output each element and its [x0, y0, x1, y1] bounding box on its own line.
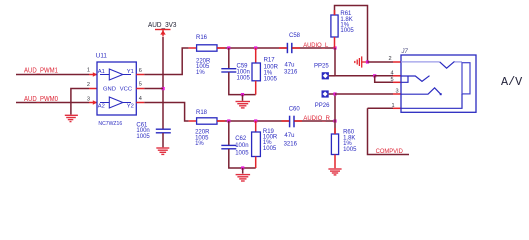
svg-text:47u: 47u: [284, 133, 294, 139]
svg-text:5: 5: [139, 82, 142, 88]
svg-text:NC7WZ16: NC7WZ16: [98, 121, 122, 127]
U11 buffer gate 1: [100, 69, 131, 80]
resistor R18: [197, 118, 217, 124]
svg-text:1%: 1%: [264, 70, 273, 76]
svg-text:1005: 1005: [263, 146, 277, 152]
wire AUD_PWM1 to U11 pin1: [16, 74, 89, 76]
wire ground stem lower: [242, 168, 244, 174]
capacitor C60: [290, 116, 294, 128]
wire PP26 stub: [329, 93, 335, 95]
wire R18 to C60: [217, 120, 289, 122]
wire U11 pin2 to ground: [71, 89, 89, 115]
pin 4 stub U11: [136, 102, 144, 104]
resistor R16: [197, 45, 217, 51]
junction PP26/pin3: [333, 92, 336, 95]
svg-text:4: 4: [391, 71, 394, 77]
resistor R60: [331, 134, 338, 155]
wire C62 drop: [228, 121, 230, 145]
svg-text:1005: 1005: [237, 75, 251, 81]
svg-text:R18: R18: [196, 110, 208, 116]
svg-text:AUD_PWM1: AUD_PWM1: [24, 66, 58, 75]
junction R16/C59: [227, 46, 230, 49]
svg-text:2: 2: [389, 56, 392, 62]
resistor R19: [252, 132, 261, 157]
svg-text:PP26: PP26: [315, 103, 330, 109]
wire AUD_3V3 rail down: [162, 37, 164, 129]
wire to jack pin 2: [368, 61, 394, 63]
J7 tip contact (pin2): [401, 61, 440, 63]
wire R19 bottom to rail: [255, 157, 257, 169]
wire R16 to C58: [217, 47, 287, 49]
svg-text:A/V: A/V: [501, 75, 523, 89]
wire to jack pin 5: [375, 76, 393, 83]
wire C59 drop: [228, 48, 230, 68]
wire to jack pin 4: [375, 75, 393, 77]
junction ground rail C59/R17: [241, 93, 244, 96]
junction R19 top: [254, 119, 257, 122]
svg-text:1%: 1%: [195, 141, 204, 147]
svg-text:GND: GND: [103, 86, 116, 92]
svg-text:C62: C62: [235, 136, 247, 142]
J7 contact (pin3): [401, 88, 441, 94]
wire ground stem: [242, 95, 244, 101]
pin 5 stub U11: [136, 88, 144, 90]
junction pins 4/5: [373, 74, 376, 77]
pin stub C60 right: [295, 120, 303, 122]
op-amp U11 body: [97, 62, 136, 115]
junction ground rail C62/R19: [241, 166, 244, 169]
capacitor C62: [221, 145, 236, 148]
wire AUDIO_R up to PP26 row: [334, 94, 336, 121]
wire R61 top rail to jack pin2 column: [335, 6, 368, 63]
pin stub R60 top: [334, 128, 336, 134]
J7 sleeve bar: [462, 63, 470, 94]
svg-text:VCC: VCC: [120, 86, 132, 92]
wire C61 to ground: [162, 133, 164, 147]
pin stub R61 top: [334, 10, 336, 15]
svg-text:6: 6: [139, 68, 142, 74]
pin stub C60 left: [282, 120, 290, 122]
svg-text:R17: R17: [264, 58, 276, 64]
svg-text:3216: 3216: [284, 70, 298, 76]
U11 buffer gate 2: [100, 97, 131, 108]
svg-text:AUD_3V3: AUD_3V3: [148, 20, 177, 29]
wire R17 bottom to rail: [255, 81, 257, 95]
wire U11 pin4 down to R18: [144, 103, 188, 122]
resistor R61: [331, 15, 338, 37]
svg-text:1005: 1005: [340, 28, 354, 34]
chassis ground (jack pin2): [355, 56, 368, 67]
wire R61 bottom to AUDIO_L: [334, 37, 336, 48]
pin stub R18 right: [217, 120, 225, 122]
svg-text:U11: U11: [96, 53, 108, 60]
junction AUDIO_L/R61: [333, 46, 336, 49]
svg-text:J7: J7: [401, 49, 409, 55]
svg-text:2: 2: [87, 82, 90, 88]
ground (C62/R19 rail): [236, 175, 251, 181]
svg-text:Y1: Y1: [127, 69, 134, 75]
junction VCC/AUD_3V3: [162, 87, 165, 90]
ground (R60): [328, 169, 341, 175]
ground (U11 pin2): [65, 115, 78, 121]
svg-text:Y2: Y2: [127, 104, 134, 110]
pin stub C58 right: [292, 47, 300, 49]
pin stub R16 right: [217, 47, 225, 49]
wire AUDIO_L to jack pins 4/5: [335, 75, 375, 77]
pin 6 stub U11: [136, 74, 144, 76]
junction R18/C62: [227, 119, 230, 122]
J7 contact (pin1): [401, 94, 462, 108]
svg-text:47u: 47u: [285, 63, 295, 69]
wire R19 top drop: [255, 121, 257, 132]
svg-text:4: 4: [139, 96, 142, 102]
svg-text:1005: 1005: [136, 134, 150, 140]
svg-text:1005: 1005: [235, 151, 249, 157]
capacitor C59: [221, 69, 236, 72]
wire AUDIO_L down to PP25 row: [334, 48, 336, 76]
svg-text:R16: R16: [196, 35, 208, 41]
wire U11 pin6 up to R16: [144, 48, 188, 75]
wire C60 to R60 junction, node AUDIO_R: [294, 120, 335, 122]
wire C59 bottom to rail: [229, 72, 256, 94]
svg-text:A1: A1: [98, 69, 105, 75]
junction chassis/pin2: [366, 60, 369, 63]
pin 3 stub U11: [89, 102, 97, 104]
pin stub R18 left: [189, 120, 197, 122]
svg-text:C58: C58: [289, 33, 301, 39]
wire AUD_PWM0 to U11 pin3: [16, 102, 89, 104]
svg-text:1: 1: [392, 103, 395, 109]
capacitor C58: [287, 43, 291, 53]
wire jack pin1 to COMPVID: [368, 108, 410, 154]
connector J7 body: [401, 55, 476, 112]
wire to jack pin 3: [335, 93, 393, 95]
test point PP26: [322, 90, 329, 97]
wire C58 to R61 junction, node AUDIO_L: [292, 47, 335, 49]
svg-text:100n: 100n: [235, 143, 248, 149]
svg-text:1: 1: [87, 68, 90, 74]
svg-text:1%: 1%: [196, 70, 205, 76]
wire R60 bottom to ground: [334, 155, 336, 169]
svg-text:3: 3: [87, 97, 90, 103]
svg-text:PP25: PP25: [314, 63, 329, 69]
svg-text:AUDIO_R: AUDIO_R: [303, 115, 330, 122]
test point PP25: [322, 72, 329, 79]
capacitor C61: [156, 129, 171, 133]
svg-text:3: 3: [396, 89, 399, 95]
svg-text:1005: 1005: [343, 147, 357, 153]
junction R17 top: [254, 46, 257, 49]
svg-text:3216: 3216: [284, 141, 298, 147]
wire AUDIO_R down to R60: [334, 121, 336, 134]
pin 1 stub U11: [89, 74, 97, 76]
svg-text:1005: 1005: [264, 77, 278, 83]
wire R17 top drop: [255, 48, 257, 63]
ground (C59/R17 rail): [236, 102, 251, 108]
junction AUDIO_R: [333, 119, 336, 122]
J7 ring contact (pin4): [401, 76, 430, 82]
wire U11 VCC to rail: [144, 88, 163, 90]
wire PP25 stub: [329, 75, 335, 77]
ground (C61): [156, 148, 169, 154]
svg-text:COMPVID: COMPVID: [376, 148, 404, 155]
wire C62 bottom to rail: [229, 149, 256, 168]
svg-text:AUD_PWM0: AUD_PWM0: [24, 94, 58, 103]
J7 ring contact (pin5): [401, 76, 408, 82]
svg-text:C60: C60: [289, 106, 301, 112]
svg-text:A2: A2: [98, 104, 105, 110]
svg-text:AUDIO_L: AUDIO_L: [303, 42, 328, 49]
resistor R17: [252, 63, 260, 81]
pin 2 stub U11: [89, 88, 97, 90]
pin stub C58 left: [279, 47, 287, 49]
svg-text:5: 5: [391, 77, 394, 83]
pin stub R16 left: [189, 47, 197, 49]
